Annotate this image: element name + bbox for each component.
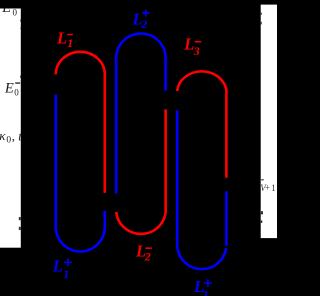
arc L2- red bottom-middle cup <box>116 109 165 234</box>
right page margin strip <box>261 5 277 239</box>
tiny fragment <box>19 19 22 21</box>
svg-text:E: E <box>4 80 14 96</box>
label L2^- <box>135 242 152 264</box>
svg-text:0: 0 <box>14 87 19 97</box>
arc L3+ blue bottom-right cup <box>177 111 226 270</box>
svg-text:,: , <box>12 129 15 144</box>
svg-text:2: 2 <box>144 249 151 263</box>
right margin text fragments <box>260 13 275 223</box>
tiny fragment <box>20 76 21 78</box>
arc L1- red top-left arch <box>56 52 105 193</box>
svg-text:L: L <box>52 257 63 276</box>
arc L2+ blue top-middle arch <box>116 34 165 194</box>
svg-text:0: 0 <box>13 7 18 17</box>
svg-text:2: 2 <box>140 17 147 31</box>
overline fragment <box>261 179 264 180</box>
tiny fragment <box>261 220 263 223</box>
tiny fragment <box>261 22 262 25</box>
tiny fragment <box>19 28 22 30</box>
svg-text:3: 3 <box>193 44 200 58</box>
tiny fragment <box>261 211 263 214</box>
left page margin strip <box>0 9 21 248</box>
label L1^- <box>56 28 73 50</box>
left margin text fragments <box>0 0 22 230</box>
label L3^+ <box>193 277 212 296</box>
svg-text:0: 0 <box>6 136 11 146</box>
tiny fragment <box>261 13 262 15</box>
label L2^+ <box>132 10 150 31</box>
svg-text:L: L <box>56 28 67 47</box>
arc L1+ blue bottom-left cup <box>56 95 105 252</box>
svg-text:1: 1 <box>271 183 276 193</box>
label L1^+ <box>52 257 72 281</box>
gap marker on L3+ right leg <box>224 246 229 248</box>
tiny fragment <box>19 227 21 230</box>
svg-text:+: + <box>265 183 270 193</box>
svg-text:3: 3 <box>201 288 208 296</box>
svg-text:κ: κ <box>0 128 6 143</box>
tiny fragment <box>19 217 21 220</box>
curves <box>56 34 227 270</box>
arc L3- red top-right arch <box>177 71 226 177</box>
svg-text:1: 1 <box>63 267 69 281</box>
label L3^- <box>183 35 201 59</box>
svg-text:1: 1 <box>67 36 73 50</box>
